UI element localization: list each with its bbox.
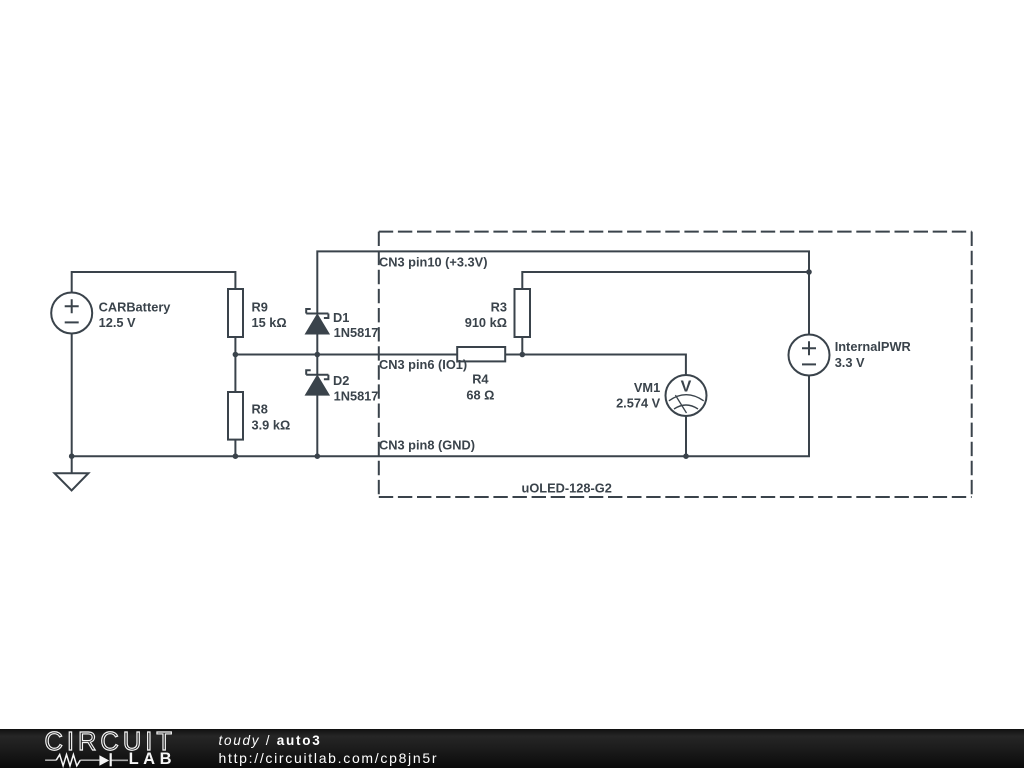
svg-text:15 kΩ: 15 kΩ (252, 315, 287, 330)
voltmeter VM1 (666, 375, 707, 416)
svg-text:R9: R9 (252, 300, 268, 315)
svg-text:3.3 V: 3.3 V (835, 355, 865, 370)
svg-text:CN3 pin8 (GND): CN3 pin8 (GND) (379, 437, 475, 452)
svg-text:R8: R8 (252, 402, 268, 417)
svg-text:D2: D2 (333, 373, 349, 388)
logo diode (99, 755, 109, 765)
wire: R3 top up and right to pin10 vertical (522, 272, 809, 289)
wire: battery top to R9 top (72, 272, 236, 293)
svg-text:R3: R3 (491, 300, 507, 315)
svg-text:D1: D1 (333, 310, 349, 325)
svg-text:68 Ω: 68 Ω (466, 388, 494, 403)
wire: R4 right to VM1 top corner (505, 355, 686, 376)
svg-text:V: V (681, 379, 692, 396)
wire: R3 bottom to mid wire (521, 337, 523, 355)
wire: R9 bottom to mid node (234, 337, 236, 355)
svg-text:910 kΩ: 910 kΩ (465, 315, 507, 330)
label R4 68 Ohm (466, 372, 494, 403)
node: battery bottom on gnd wire (69, 453, 75, 459)
label R8 3.9 kOhm (252, 402, 291, 433)
wire: mid node to R8 top (234, 355, 236, 393)
node: D2 anode on gnd wire (315, 453, 321, 459)
svg-text:12.5 V: 12.5 V (99, 315, 136, 330)
label R9 15 kOhm (252, 300, 287, 331)
label CARBattery 12.5 V (99, 300, 172, 331)
resistor R9 (228, 289, 243, 337)
label VM1 2.574 V (616, 380, 661, 411)
wire: CN3 pin10 net (D1 top across to InternalPWR top) (317, 251, 809, 334)
wire: R8 bottom to gnd wire (234, 440, 236, 457)
resistor R3 (515, 289, 531, 337)
resistor R4 (457, 347, 505, 361)
ground (55, 473, 89, 490)
svg-text:InternalPWR: InternalPWR (835, 339, 911, 354)
label R3 910 kOhm (465, 300, 507, 331)
wire: battery bottom to ground (71, 334, 73, 473)
wire: D2 anode down to gnd wire (316, 395, 318, 457)
diode D2 (schottky) (306, 370, 328, 394)
label D1 1N5817 (333, 310, 378, 340)
voltage source InternalPWR (789, 335, 830, 376)
label InternalPWR 3.3 V (835, 339, 911, 370)
label D2 1N5817 (333, 373, 378, 403)
node: junction R9/R8/mid wire (233, 352, 239, 358)
wire: VM1 bottom to gnd wire (685, 416, 687, 456)
footer author line: toudy / auto3 (219, 733, 322, 748)
node: VM1 bottom on gnd wire (683, 453, 689, 459)
svg-text:VM1: VM1 (634, 380, 660, 395)
logo CIRCUIT wordmark (45, 728, 176, 757)
svg-text:1N5817: 1N5817 (334, 388, 379, 403)
svg-text:CN3 pin6 (IO1): CN3 pin6 (IO1) (379, 357, 467, 372)
logo resistor zigzag (56, 754, 80, 765)
wire: mid node down to D2 cathode (316, 355, 318, 375)
svg-text:3.9 kΩ: 3.9 kΩ (252, 418, 291, 433)
svg-text:uOLED-128-G2: uOLED-128-G2 (522, 481, 612, 496)
diode D1 (schottky) (306, 309, 328, 334)
wire: mid wire from R9 node to R4 (235, 354, 457, 356)
node: R8 bottom on gnd wire (233, 453, 239, 459)
node: R3 bottom junction (520, 352, 526, 358)
dashed box uOLED-128-G2 (379, 232, 972, 497)
logo wire lead (45, 759, 128, 761)
voltage source CARBattery (51, 293, 92, 334)
logo LAB text (129, 750, 176, 769)
svg-text:2.574 V: 2.574 V (616, 396, 661, 411)
svg-text:CN3 pin10 (+3.3V): CN3 pin10 (+3.3V) (379, 255, 487, 270)
wire: gnd net from battery to InternalPWR (72, 376, 809, 457)
svg-text:R4: R4 (472, 372, 489, 387)
wire: D1 anode down to mid node (316, 334, 318, 355)
footer bar (0, 729, 1024, 768)
footer url line (219, 750, 439, 766)
node: D1/D2 junction on mid wire (315, 352, 321, 358)
svg-text:1N5817: 1N5817 (334, 325, 379, 340)
logo resistor-diode symbol row (44, 751, 134, 770)
resistor R8 (228, 392, 243, 440)
svg-text:CARBattery: CARBattery (99, 300, 172, 315)
node: junction pin10 vertical / R3 top wire (806, 269, 812, 275)
